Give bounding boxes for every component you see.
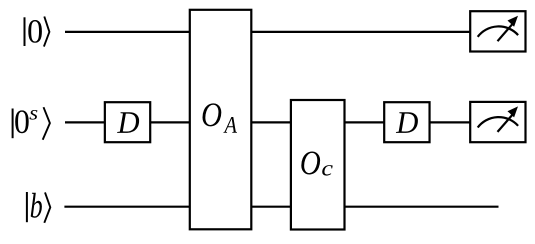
meter M1 needle: [498, 23, 514, 41]
gate label O of O_c: [301, 151, 320, 174]
meter M2 dial arc: [478, 117, 518, 127]
wire q2 (bottom qubit wire): [64, 206, 498, 208]
gate box D1: [105, 102, 150, 142]
gate label O of O_A: [203, 103, 222, 126]
meter M1 dial arc: [478, 26, 518, 36]
meter M1 arrowhead: [508, 16, 519, 27]
ket label |0^s> : digit 0: [15, 110, 28, 133]
meter M2 arrowhead: [508, 106, 519, 117]
gate box O_c (2-qubit oracle): [291, 100, 345, 230]
measurement meter M1: box: [470, 11, 525, 51]
gate label D (second D gate): [396, 112, 418, 133]
wire q1 (middle qubit wire): [65, 121, 470, 123]
ket label |b> : vertical bar: [26, 192, 28, 222]
wire q0 (top qubit wire): [65, 31, 470, 33]
gate label subscript A of O_A: [223, 117, 237, 133]
gate box D2: [384, 102, 429, 142]
measurement meter M2: box: [470, 102, 525, 142]
gate box O_A (3-qubit oracle): [190, 10, 252, 230]
meter M2 needle: [498, 114, 514, 132]
ket label |0> : digit 0: [28, 20, 42, 43]
gate label D (first D gate): [117, 112, 139, 133]
gate label subscript c of O_c: [322, 165, 332, 176]
ket label |0^s> : right angle bracket: [43, 107, 50, 140]
ket label |0> : right angle bracket: [44, 17, 50, 47]
ket label |0^s> : vertical bar: [12, 109, 14, 139]
ket label |b> : right angle bracket: [44, 192, 50, 222]
ket label |0^s> : superscript s: [30, 110, 38, 120]
ket label |b> : letter b: [31, 193, 42, 218]
ket label |0> : vertical bar: [24, 17, 26, 46]
